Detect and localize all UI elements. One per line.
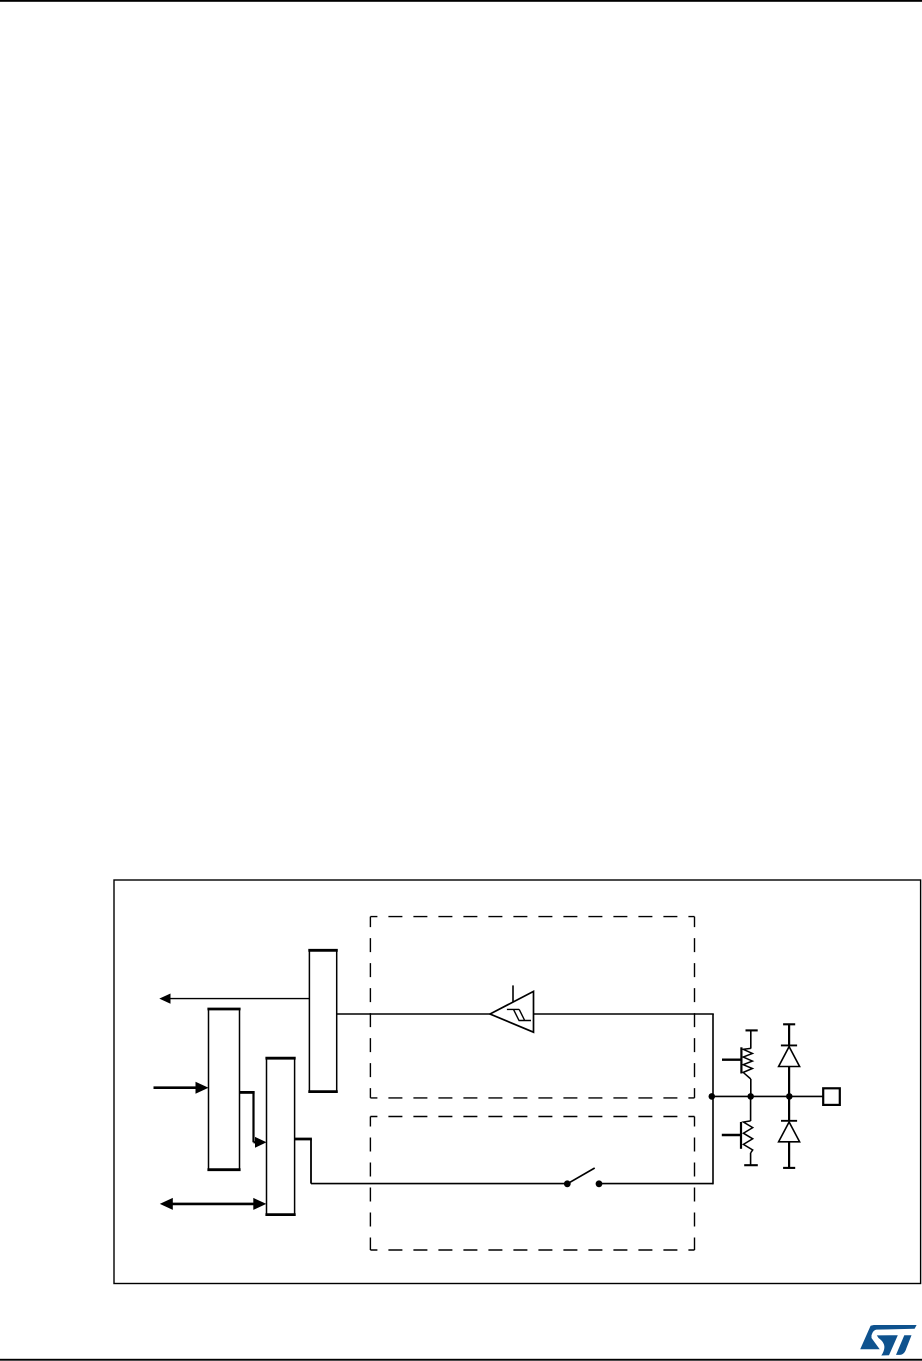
- block B2: [207, 1009, 240, 1170]
- wire B3 to switch: [295, 1139, 568, 1184]
- wire switch to pad node: [599, 1183, 713, 1185]
- node junction J1: [709, 1093, 716, 1100]
- block B1: [308, 950, 338, 1091]
- I/O pad P1: [823, 1088, 840, 1105]
- node junction J2: [747, 1093, 754, 1100]
- protection diode D1 (to VDD): [779, 1024, 800, 1096]
- wire B1 to schmitt: [337, 1013, 490, 1015]
- arrow bidirectional (bus): [160, 1198, 266, 1210]
- ST logo: [860, 1325, 916, 1356]
- arrow out (to core): [159, 994, 309, 1004]
- schmitt trigger U1: [490, 985, 534, 1032]
- protection diode D2 (to VSS): [779, 1096, 800, 1168]
- dashed box analog-stage: [370, 1117, 694, 1251]
- block B3: [265, 1058, 295, 1214]
- switch SW1: [564, 1168, 603, 1187]
- node line (pad net): [713, 1095, 823, 1097]
- node junction J3: [786, 1093, 793, 1100]
- wire B2 to B3 with arrow: [240, 1091, 267, 1148]
- dashed box input-stage: [370, 917, 694, 1098]
- pull-down resistor R2 with gate: [722, 1096, 758, 1165]
- pull-up resistor R1 with gate: [722, 1030, 758, 1096]
- wire vertical pad node: [712, 1014, 714, 1184]
- arrow in (from core): [154, 1082, 209, 1094]
- wire schmitt output: [534, 1013, 714, 1015]
